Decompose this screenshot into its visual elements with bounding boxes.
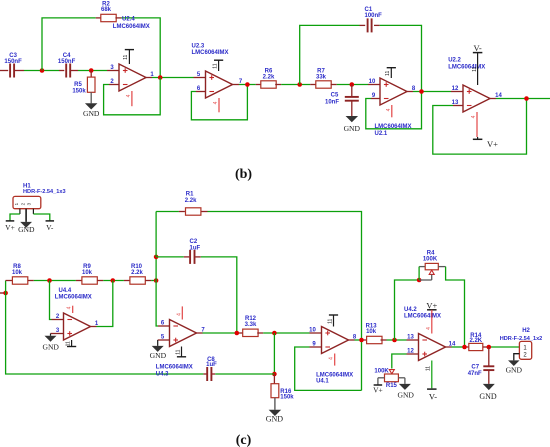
H1 pin 1 to V+ (19, 209, 21, 214)
wire: U4.2 pin 12 to R15 wiper (407, 353, 419, 355)
junction node (U4.4 pin 2 tap) (47, 278, 52, 283)
wire: input stub section c (0, 292, 6, 294)
connector H2 HDR-F-2.54_1x2 (519, 341, 531, 359)
svg-text:GND: GND (83, 109, 100, 118)
feedback wire through C1 (300, 25, 360, 84)
svg-text:LMC6064IMX: LMC6064IMX (316, 372, 353, 378)
wire: C4 to U2.4 pin 3 (70, 70, 78, 72)
junction node A (C3-C4) (40, 68, 45, 73)
svg-text:V-: V- (429, 391, 437, 401)
svg-text:V+: V+ (373, 386, 383, 395)
svg-text:LMC6064IMX: LMC6064IMX (192, 50, 229, 56)
wire: U4.4 output up to node (91, 326, 97, 328)
svg-text:U2.4: U2.4 (122, 17, 135, 23)
svg-text:GND: GND (506, 365, 523, 374)
wire: U4.3 pin 5 to ground (158, 339, 170, 341)
junction U2.2 output node (524, 96, 529, 101)
wire: U4.3 output to R12 (197, 332, 203, 334)
feedback wire through R2 (42, 18, 96, 71)
junction node (C2 leg) (235, 331, 240, 336)
svg-text:R1: R1 (186, 192, 194, 198)
resistor R5 150k (90, 71, 92, 78)
resistor R2 68k (101, 14, 116, 21)
svg-text:LMC6064IMX: LMC6064IMX (113, 24, 150, 30)
svg-text:U4.1: U4.1 (316, 379, 329, 385)
ground below R16 (274, 398, 276, 410)
svg-text:U4.3: U4.3 (156, 371, 169, 377)
wire: R13 to U4.2 pin 13 (381, 339, 387, 341)
svg-text:2.2K: 2.2K (469, 338, 482, 344)
resistor R16 150k (273, 374, 275, 384)
svg-text:100nF: 100nF (365, 13, 383, 19)
svg-text:GND: GND (150, 351, 167, 360)
svg-text:13: 13 (407, 335, 414, 341)
connector H1 HDR-F-2.54_1x3 (13, 196, 41, 208)
wire: U2.2 output to edge (490, 98, 496, 100)
wire: R1 loop (155, 212, 157, 257)
svg-text:11: 11 (212, 63, 218, 68)
U2.3 pin 11 power (218, 60, 220, 71)
wire: U2.3 feedback to pin 6 (196, 91, 206, 93)
wire: U4.1 output to R13 (349, 339, 355, 341)
svg-text:V-: V- (46, 223, 54, 232)
svg-text:U2.3: U2.3 (192, 43, 205, 49)
svg-text:10k: 10k (366, 329, 377, 335)
U4.2 V- power pin bottom (431, 361, 433, 389)
H1 pin 3 to V- (32, 209, 34, 214)
junction node (R16 tap) (272, 331, 277, 336)
junction U4.1 output node (359, 338, 364, 343)
svg-text:2.2k: 2.2k (131, 270, 143, 276)
ground below C7 (488, 370, 490, 384)
wire: left vertical and bottom feedback (6, 281, 204, 375)
junction node (C5 tap) (350, 82, 355, 87)
H2 pin 2 to ground (514, 354, 520, 361)
junction U2.4 output node (158, 75, 163, 80)
junction U4.2 output node (462, 345, 467, 350)
resistor R14 2.2K (469, 343, 483, 350)
resistor R9 10k (82, 277, 97, 284)
svg-text:4: 4 (386, 108, 392, 111)
svg-text:68k: 68k (101, 7, 112, 13)
svg-text:LMC6064IMX: LMC6064IMX (156, 364, 193, 370)
wire: U4.2 output to R14 (446, 346, 452, 348)
capacitor C3 150nF (9, 64, 11, 78)
junction node (C7 tap) (487, 345, 492, 350)
junction node (C2 tap) (154, 255, 159, 260)
svg-text:47nF: 47nF (468, 371, 482, 377)
resistor R1 2.2k (186, 208, 201, 215)
resistor R7 33k (316, 81, 331, 88)
U4.3 pin 4 power (181, 306, 183, 319)
svg-text:GND: GND (266, 415, 284, 424)
wire: node B down to U4.3 pin 6 (156, 281, 158, 327)
svg-text:C2: C2 (190, 239, 198, 245)
U4.3 pin 11 power (181, 347, 183, 357)
svg-text:11: 11 (65, 341, 71, 346)
svg-text:11: 11 (327, 318, 333, 323)
svg-text:4: 4 (329, 357, 335, 360)
H1 pin 2 to GND (25, 209, 27, 222)
svg-text:R15: R15 (386, 383, 398, 389)
svg-text:V+: V+ (487, 139, 498, 149)
wire: R14 to H2 pin 1 (483, 346, 489, 348)
capacitor C1 100nF (367, 18, 369, 32)
svg-text:12: 12 (452, 86, 459, 92)
U4.4 pin 11 power (71, 340, 73, 347)
wire: U2.3 output to R6 (233, 84, 240, 86)
wire: R2 to U2.4 output net (115, 17, 121, 19)
svg-text:U4.2: U4.2 (404, 307, 417, 313)
wire: input stub to C3 (0, 70, 8, 72)
op-amp U2.4 (119, 64, 146, 91)
U4.1 pin 4 power (334, 354, 336, 366)
svg-text:GND: GND (344, 124, 361, 133)
svg-text:3.3k: 3.3k (245, 322, 257, 328)
svg-text:10k: 10k (12, 270, 23, 276)
U2.1 pin 4 power (391, 105, 393, 117)
svg-text:4: 4 (176, 313, 182, 316)
wire: C3 to C4 with node A (14, 70, 24, 72)
U2.4 pin 11 power (128, 50, 130, 64)
capacitor C7 47nF (488, 347, 490, 366)
U2.2 V+ power pin bottom (476, 112, 478, 137)
svg-text:11: 11 (426, 366, 432, 371)
junction node (R4 wiper tie) (417, 278, 422, 283)
capacitor C2 1uF (189, 250, 191, 264)
svg-text:4: 4 (471, 115, 477, 118)
svg-text:2.2k: 2.2k (263, 74, 275, 80)
junction node (R4 left leg) (392, 338, 397, 343)
wire: R1 to U4.1 output leg (202, 211, 208, 213)
wire: R8 lead (6, 280, 13, 282)
op-amp U2.1 (380, 78, 407, 105)
svg-text:150nF: 150nF (4, 59, 22, 65)
junction node (R5 tap) (89, 68, 94, 73)
capacitor C4 150nF (65, 64, 67, 78)
svg-text:R5: R5 (74, 82, 82, 88)
svg-text:GND: GND (42, 342, 59, 351)
junction input node (3, 291, 8, 296)
svg-text:U2.2: U2.2 (448, 58, 461, 64)
junction node B (154, 278, 159, 283)
svg-text:33k: 33k (316, 74, 327, 80)
svg-text:4: 4 (213, 101, 219, 104)
svg-text:GND: GND (479, 392, 497, 401)
svg-text:(c): (c) (236, 433, 252, 447)
svg-text:V-: V- (473, 43, 481, 53)
op-amp U4.1 (322, 327, 349, 354)
wire: U2.2 feedback to pin 13 (453, 105, 463, 107)
op-amp U4.4 (64, 313, 91, 340)
svg-text:C5: C5 (331, 92, 339, 98)
svg-text:150k: 150k (280, 394, 294, 400)
wire: node to U4.4 pin 2 (50, 281, 52, 320)
op-amp U4.2 (419, 334, 446, 361)
U2.1 pin 11 power (390, 68, 392, 78)
svg-text:V+: V+ (5, 223, 15, 232)
ground below C5 (351, 101, 353, 116)
svg-text:4: 4 (126, 94, 132, 97)
svg-text:10: 10 (309, 328, 316, 334)
resistor R8 10k (12, 277, 27, 284)
wire: R9 to R10 (97, 280, 103, 282)
svg-text:LMC6064IMX: LMC6064IMX (448, 65, 485, 71)
svg-text:100K: 100K (423, 257, 438, 263)
svg-text:1uF: 1uF (206, 362, 217, 368)
svg-text:11: 11 (175, 349, 181, 354)
junction node (bottom feedback) (272, 372, 277, 377)
wire: R8 to R9 (28, 280, 34, 282)
potentiometer R15 100K (389, 370, 394, 374)
svg-text:C1: C1 (365, 7, 373, 13)
svg-text:150nF: 150nF (58, 59, 76, 65)
svg-text:U4.4: U4.4 (59, 288, 72, 294)
svg-text:100K: 100K (374, 369, 389, 375)
ground U4.4 pin 3 (45, 336, 57, 342)
junction U2.3 output node (245, 82, 250, 87)
wire: U2.4 feedback to pin 2 (109, 84, 119, 86)
op-amp U2.3 (206, 71, 233, 98)
svg-text:10: 10 (369, 79, 376, 85)
wire: U2.1 output to U2.2 pin 12 (407, 91, 413, 93)
wire: C1 to U2.1 output net (374, 24, 380, 26)
svg-text:V+: V+ (426, 300, 437, 310)
svg-text:GND: GND (397, 391, 414, 400)
wire: U4.1 feedback to pin 9 (310, 346, 322, 348)
svg-text:C7: C7 (471, 365, 479, 371)
resistor R12 3.3k (243, 329, 258, 336)
wire: R12 to U4.1 pin 10 (257, 332, 263, 334)
wire: R6 to R7 (275, 84, 281, 86)
svg-text:4: 4 (67, 306, 73, 309)
svg-text:11: 11 (472, 66, 478, 71)
wire: R4 left leg (395, 280, 420, 340)
R15 right leg to ground (398, 377, 405, 379)
svg-text:U2.1: U2.1 (375, 131, 388, 137)
U4.1 pin 11 power (333, 315, 335, 327)
capacitor C8 1uF (206, 367, 208, 381)
op-amp U4.3 (170, 320, 197, 347)
wire: node B up to C2 (155, 257, 157, 281)
svg-text:HDR-F-2.54_1x3: HDR-F-2.54_1x3 (23, 189, 66, 195)
resistor R10 2.2k (130, 277, 145, 284)
svg-text:11: 11 (385, 71, 391, 76)
wire: R4 right leg to output node (446, 267, 465, 347)
ground U4.3 pin 5 (152, 346, 164, 352)
ground below R5 (90, 92, 92, 103)
wire: U2.4 output (146, 77, 152, 79)
svg-text:H2: H2 (522, 328, 530, 334)
svg-text:LMC6064IMX: LMC6064IMX (404, 313, 441, 319)
svg-text:(b): (b) (235, 167, 252, 182)
svg-text:2.2k: 2.2k (185, 198, 197, 204)
capacitor C5 10nF (351, 85, 353, 97)
potentiometer R4 100K (419, 266, 425, 268)
junction node (C1 tap) (297, 82, 302, 87)
svg-text:10nF: 10nF (325, 100, 339, 106)
junction U2.1 output node (419, 89, 424, 94)
U2.4 pin 4 power (131, 91, 133, 106)
svg-text:HDR-F-2.54_1x2: HDR-F-2.54_1x2 (500, 336, 543, 342)
wire: U4.4 pin 3 to ground (51, 333, 64, 335)
svg-text:LMC6064IMX: LMC6064IMX (55, 294, 92, 300)
wire: U2.1 feedback to pin 9 (371, 98, 380, 100)
resistor R6 2.2k (261, 81, 276, 88)
wire: C2 row (156, 256, 184, 258)
svg-text:10k: 10k (82, 270, 93, 276)
U2.3 pin 4 power (218, 98, 220, 112)
wire: C2 to right leg (195, 256, 201, 258)
svg-text:4: 4 (426, 327, 432, 330)
wire: C8 right lead (211, 373, 215, 375)
wire: R7 to U2.1 pin 10 (331, 84, 337, 86)
junction node (U4.4 output tap) (111, 278, 116, 283)
svg-text:GND: GND (18, 225, 35, 234)
resistor R13 10k (367, 336, 382, 343)
wire: R10 to node B (145, 280, 151, 282)
wire: node down to bottom feedback (273, 333, 275, 374)
op-amp U2.2 (463, 85, 490, 112)
U4.4 pin 4 power (72, 306, 74, 313)
svg-text:R4: R4 (427, 250, 435, 256)
svg-text:150k: 150k (72, 88, 86, 94)
R15 left leg to V+ (378, 377, 385, 379)
svg-text:1uF: 1uF (190, 245, 201, 251)
svg-text:11: 11 (123, 54, 129, 59)
